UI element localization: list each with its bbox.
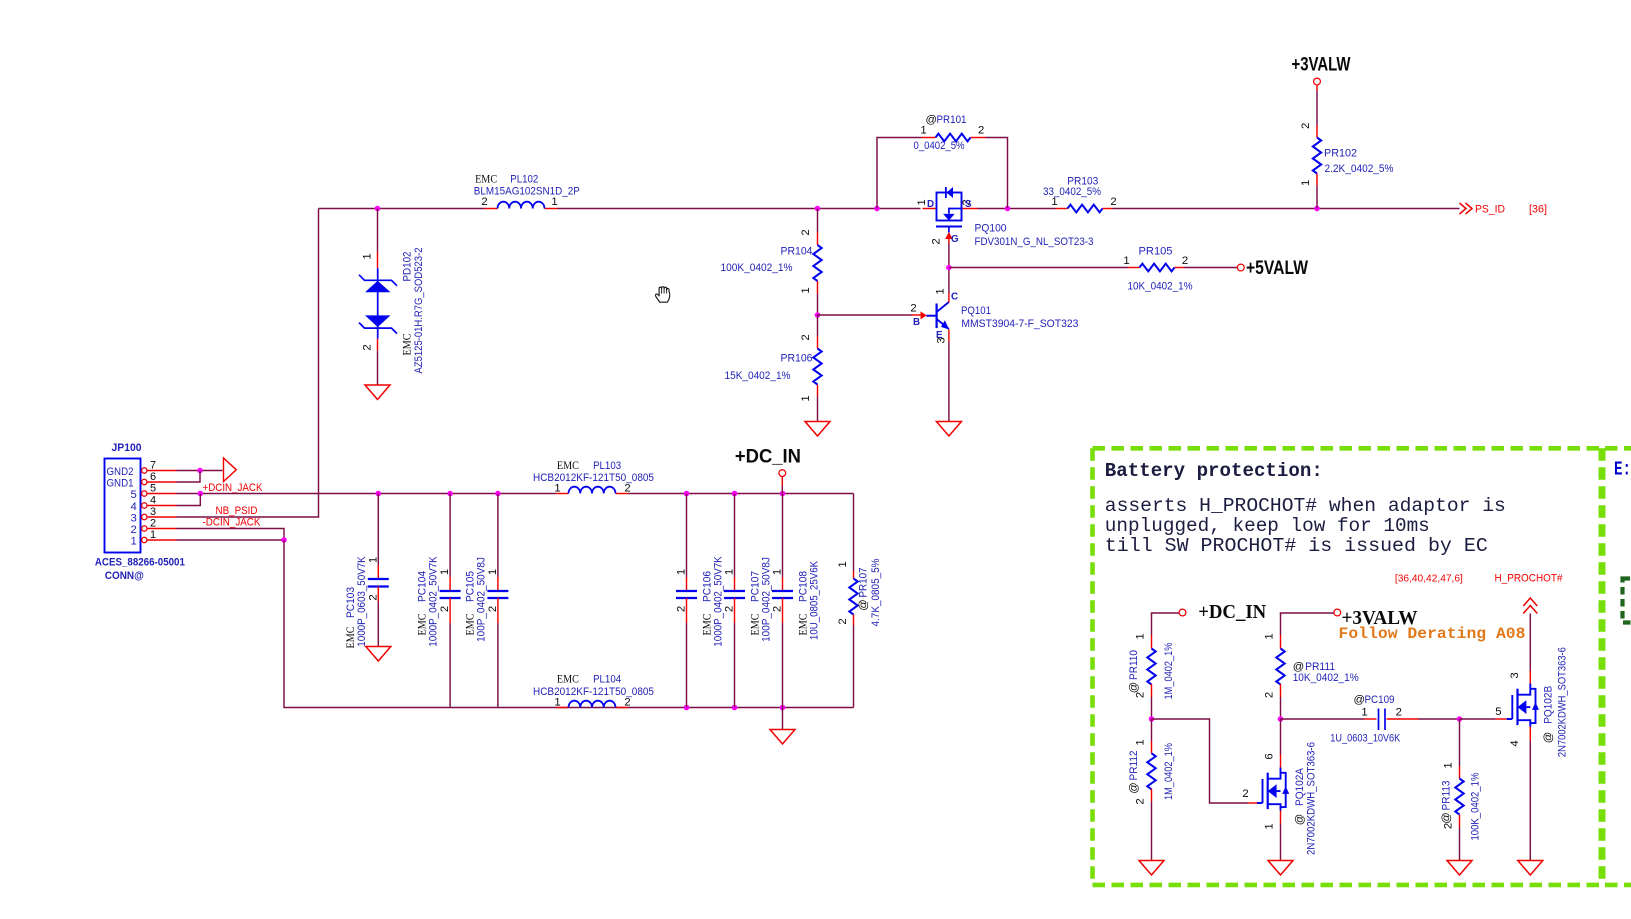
svg-text:1M_0402_1%: 1M_0402_1%: [1163, 743, 1175, 800]
svg-text:1: 1: [935, 288, 947, 294]
svg-text:1: 1: [1135, 739, 1147, 745]
svg-text:6: 6: [1264, 753, 1276, 759]
svg-text:EMC: EMC: [557, 674, 579, 686]
svg-text:2: 2: [1110, 196, 1116, 208]
svg-text:1: 1: [1051, 196, 1057, 208]
svg-text:@: @: [1128, 682, 1140, 693]
svg-text:1: 1: [439, 569, 451, 575]
svg-text:+3VALW: +3VALW: [1292, 54, 1351, 76]
svg-text:PR101: PR101: [937, 114, 967, 126]
capacitor PC107: [724, 494, 773, 708]
svg-text:2: 2: [724, 606, 736, 612]
svg-text:E:: E:: [1614, 459, 1631, 481]
svg-text:1: 1: [772, 569, 784, 575]
svg-text:2: 2: [800, 334, 812, 340]
svg-text:1: 1: [676, 569, 688, 575]
svg-text:3: 3: [150, 506, 156, 518]
wire PQ102B drain to H_PROCHOT#: [1509, 614, 1530, 684]
svg-text:+DCIN_JACK: +DCIN_JACK: [203, 482, 263, 494]
svg-text:2: 2: [837, 618, 849, 624]
svg-text:100P_0402_50V8J: 100P_0402_50V8J: [475, 557, 487, 642]
svg-text:3: 3: [936, 337, 948, 343]
ground below PD102: [365, 385, 390, 400]
wire NB_PSID vertical riser x=318: [177, 209, 319, 518]
svg-text:1: 1: [150, 529, 156, 541]
svg-text:PR113: PR113: [1441, 781, 1453, 811]
svg-text:[36,40,42,47,6]: [36,40,42,47,6]: [1395, 574, 1463, 585]
wire PR101 loop: [877, 138, 1008, 209]
resistor PR106: [725, 315, 822, 422]
svg-text:7: 7: [150, 459, 156, 471]
svg-text:2: 2: [800, 229, 812, 235]
svg-text:2: 2: [1242, 788, 1248, 800]
svg-text:1: 1: [1300, 180, 1312, 186]
svg-text:1: 1: [837, 561, 849, 567]
svg-text:2: 2: [131, 524, 137, 536]
svg-text:1: 1: [1443, 762, 1455, 768]
capacitor PC108: [772, 494, 821, 708]
svg-text:@: @: [1543, 732, 1555, 743]
svg-text:NB_PSID: NB_PSID: [216, 505, 258, 517]
annotation box (battery protection): [1093, 448, 1603, 885]
svg-text:2: 2: [910, 303, 916, 315]
resistor PR101: [914, 114, 986, 152]
svg-text:100K_0402_1%: 100K_0402_1%: [1470, 773, 1482, 841]
svg-text:2: 2: [1182, 255, 1188, 267]
svg-text:@: @: [926, 114, 937, 126]
annotation mini box (clipped): [1623, 579, 1631, 623]
svg-text:2: 2: [150, 517, 156, 529]
svg-text:3: 3: [1509, 672, 1521, 678]
transistor PQ102B (2N7002): [1507, 647, 1569, 757]
svg-text:unplugged, keep low for 10ms: unplugged, keep low for 10ms: [1105, 515, 1430, 537]
svg-text:10K_0402_1%: 10K_0402_1%: [1128, 281, 1193, 293]
svg-text:@: @: [858, 599, 870, 610]
net label -DCIN_JACK: [203, 517, 261, 529]
ground below PR112: [1139, 861, 1164, 876]
ground below PQ102B: [1518, 861, 1543, 876]
junction PR110/PR112/gate: [1149, 716, 1155, 722]
svg-text:-DCIN_JACK: -DCIN_JACK: [203, 517, 261, 529]
junction dots on main net: [375, 206, 1320, 212]
svg-text:5: 5: [131, 489, 137, 501]
svg-text:till SW PROCHOT# is issued by: till SW PROCHOT# is issued by EC: [1105, 535, 1488, 557]
note title E: (clipped): [1614, 459, 1631, 481]
svg-text:PC109: PC109: [1365, 694, 1395, 706]
wire PQ102A drain: [1264, 719, 1281, 768]
svg-text:PQ102B: PQ102B: [1543, 686, 1555, 724]
capacitor PC105: [464, 494, 508, 708]
resistor PR105: [1123, 246, 1192, 293]
inductor PL104: [533, 674, 654, 709]
transistor PQ101 (MMST3904): [927, 288, 1079, 343]
svg-text:1: 1: [131, 535, 137, 547]
resistor PR102: [1300, 91, 1394, 209]
ground below PQ102A: [1268, 861, 1293, 876]
net label NB_PSID: [216, 505, 258, 517]
svg-text:PL102: PL102: [510, 174, 538, 186]
svg-text:H_PROCHOT#: H_PROCHOT#: [1495, 573, 1564, 585]
svg-text:10U_0805_25V6K: 10U_0805_25V6K: [809, 561, 821, 640]
svg-text:2N7002KDWH_SOT363-6: 2N7002KDWH_SOT363-6: [1556, 647, 1568, 757]
wire PQ101 collector to node: [948, 268, 950, 294]
svg-text:2: 2: [367, 594, 379, 600]
wire bottom rail to ground: [782, 708, 784, 730]
svg-text:PS_ID: PS_ID: [1475, 204, 1505, 216]
svg-text:FDV301N_G_NL_SOT23-3: FDV301N_G_NL_SOT23-3: [975, 236, 1094, 248]
svg-text:2: 2: [676, 606, 688, 612]
svg-text:1: 1: [1123, 255, 1129, 267]
svg-text:10K_0402_1%: 10K_0402_1%: [1293, 672, 1359, 684]
svg-text:MMST3904-7-F_SOT323: MMST3904-7-F_SOT323: [961, 318, 1078, 330]
svg-text:D: D: [927, 199, 934, 210]
svg-text:PR102: PR102: [1324, 148, 1357, 160]
TVS diode PD102: [359, 209, 425, 386]
svg-text:PR110: PR110: [1128, 650, 1140, 680]
svg-text:JP100: JP100: [112, 442, 142, 454]
svg-text:2: 2: [1135, 798, 1147, 804]
ground below PQ101: [936, 422, 961, 437]
svg-text:HCB2012KF-121T50_0805: HCB2012KF-121T50_0805: [533, 686, 654, 698]
wire pin4 join: [177, 494, 201, 506]
junction node gate/collector/+5V: [946, 265, 952, 271]
ferrite bead PL102: [474, 174, 580, 209]
wire PR110 node to PQ102A gate: [1152, 719, 1249, 803]
resistor PR110: [1128, 614, 1175, 720]
note title battery protection: [1105, 460, 1323, 482]
svg-text:2: 2: [487, 606, 499, 612]
capacitor PC103: [345, 494, 389, 649]
wire PQ100 gate to node: [948, 244, 950, 268]
svg-text:1M_0402_1%: 1M_0402_1%: [1163, 643, 1175, 700]
capacitor PC104: [417, 494, 461, 708]
svg-text:PQ100: PQ100: [975, 223, 1007, 235]
resistor PR104: [721, 209, 822, 316]
svg-text:2: 2: [1300, 123, 1312, 129]
svg-text:1: 1: [554, 483, 560, 495]
svg-text:GND2: GND2: [107, 466, 134, 478]
svg-text:100K_0402_1%: 100K_0402_1%: [721, 262, 793, 274]
svg-text:6: 6: [150, 471, 156, 483]
svg-text:PD102: PD102: [402, 252, 414, 282]
svg-text:2N7002KDWH_SOT363-6: 2N7002KDWH_SOT363-6: [1306, 742, 1318, 855]
svg-text:+5VALW: +5VALW: [1246, 257, 1308, 279]
svg-text:1000P_0603_50V7K: 1000P_0603_50V7K: [356, 556, 368, 647]
svg-text:1: 1: [800, 287, 812, 293]
svg-text:PR104: PR104: [781, 246, 813, 258]
svg-text:PQ101: PQ101: [961, 305, 991, 317]
svg-text:@: @: [1354, 694, 1365, 706]
svg-text:15K_0402_1%: 15K_0402_1%: [725, 370, 791, 382]
ground below filter: [770, 730, 795, 745]
wire pin1 to rail: [177, 539, 285, 541]
svg-text:2.2K_0402_5%: 2.2K_0402_5%: [1325, 163, 1394, 175]
junction PR111/PC109/PQ102A: [1278, 716, 1284, 722]
resistor PR113: [1441, 719, 1482, 861]
resistor PR103: [1043, 176, 1117, 213]
connector JP100 footprint label: [95, 557, 185, 583]
svg-text:3: 3: [131, 512, 137, 524]
svg-text:PQ102A: PQ102A: [1294, 768, 1306, 806]
svg-text:G: G: [951, 234, 959, 245]
wire pin2 join: [177, 529, 285, 541]
svg-text:@: @: [1294, 814, 1306, 825]
svg-text:S: S: [965, 199, 972, 210]
wire ground-return rail: [284, 540, 854, 708]
svg-text:EMC: EMC: [402, 334, 414, 356]
svg-text:1: 1: [724, 569, 736, 575]
junction pin5/pin4: [198, 491, 204, 497]
svg-text:1: 1: [487, 569, 499, 575]
ground below PR113: [1447, 861, 1472, 876]
capacitor PC106: [676, 494, 725, 708]
connector JP100 body: [105, 442, 142, 553]
svg-text:PL104: PL104: [593, 674, 621, 686]
svg-text:1: 1: [367, 557, 379, 563]
wire PQ101 base: [818, 303, 927, 329]
svg-text:2: 2: [481, 196, 487, 208]
svg-text:@: @: [1441, 812, 1453, 823]
svg-text:PR105: PR105: [1139, 246, 1173, 258]
wire pin6 join: [177, 471, 201, 483]
svg-text:AZ5125-01H.R7G_SOD523-2: AZ5125-01H.R7G_SOD523-2: [413, 248, 425, 374]
wire node to PR105: [949, 267, 1128, 269]
wire +DCIN_JACK rail: [177, 493, 854, 495]
ground below PR106: [805, 422, 830, 437]
svg-text:PR112: PR112: [1128, 751, 1140, 781]
power +3VALW (battery box): [1281, 607, 1418, 629]
svg-text:GND1: GND1: [107, 477, 134, 489]
resistor PR111: [1264, 614, 1359, 720]
transistor PQ100 (FDV301N): [916, 187, 1094, 248]
svg-text:2: 2: [439, 606, 451, 612]
net label +DCIN_JACK: [203, 482, 263, 494]
svg-text:+DC_IN: +DC_IN: [1198, 602, 1266, 623]
transistor PQ102A (2N7002): [1249, 742, 1318, 855]
svg-text:PR106: PR106: [781, 353, 813, 365]
svg-text:C: C: [951, 291, 958, 302]
svg-text:HCB2012KF-121T50_0805: HCB2012KF-121T50_0805: [533, 472, 654, 484]
cursor hand icon: [656, 287, 670, 303]
svg-text:1: 1: [551, 196, 557, 208]
svg-text:4: 4: [1509, 740, 1521, 746]
junction dots top rail: [376, 491, 786, 497]
svg-text:4: 4: [131, 501, 137, 513]
svg-text:2: 2: [772, 606, 784, 612]
note follow derating: [1339, 625, 1526, 643]
wire PQ102B source to ground: [1509, 727, 1530, 861]
port H_PROCHOT# arrow: [1523, 598, 1537, 614]
svg-text:5: 5: [1495, 706, 1501, 718]
svg-text:1: 1: [554, 697, 560, 709]
port unnamed (pin7): [224, 458, 237, 482]
svg-text:PR107: PR107: [858, 568, 870, 598]
svg-text:@: @: [1128, 782, 1140, 793]
resistor PR112: [1128, 719, 1175, 861]
ground below PC103: [366, 647, 391, 662]
svg-text:0_0402_5%: 0_0402_5%: [914, 140, 965, 152]
svg-text:5: 5: [150, 482, 156, 494]
svg-text:1: 1: [800, 395, 812, 401]
svg-text:2: 2: [624, 697, 630, 709]
svg-text:2: 2: [931, 238, 943, 244]
svg-text:1: 1: [1135, 633, 1147, 639]
wire main net (PL102/PQ100/PR103 row, y=208): [319, 208, 1460, 210]
svg-text:1U_0603_10V6K: 1U_0603_10V6K: [1330, 733, 1400, 745]
svg-text:2: 2: [624, 483, 630, 495]
svg-text:CONN@: CONN@: [105, 570, 144, 582]
junction node PR104/PR106/base: [815, 312, 821, 318]
svg-text:BLM15AG102SN1D_2P: BLM15AG102SN1D_2P: [474, 186, 580, 198]
svg-text:+DC_IN: +DC_IN: [735, 446, 801, 468]
svg-text:ACES_88266-05001: ACES_88266-05001: [95, 557, 185, 569]
wire pin7 to port: [177, 470, 223, 472]
note body battery protection: [1105, 495, 1506, 557]
svg-text:Battery protection:: Battery protection:: [1105, 460, 1323, 482]
resistor PR107: [837, 494, 882, 708]
power +5VALW: [1237, 257, 1308, 279]
capacitor PC109: [1281, 694, 1460, 745]
wire PQ101 emitter to ground: [948, 342, 950, 422]
net label H_PROCHOT#: [1495, 573, 1564, 585]
svg-text:2: 2: [362, 344, 374, 350]
junction PC109/PR113/PQ102B: [1457, 716, 1463, 722]
inductor PL103: [533, 460, 654, 495]
svg-text:1: 1: [362, 253, 374, 259]
power +3VALW (top): [1292, 54, 1351, 91]
svg-text:1: 1: [1361, 707, 1367, 719]
port PS_ID: [1460, 203, 1548, 216]
junction pin1/pin2: [281, 537, 287, 543]
svg-text:1: 1: [1264, 823, 1276, 829]
svg-text:2: 2: [978, 125, 984, 137]
wire PQ102A source to ground: [1264, 811, 1281, 861]
svg-text:B: B: [913, 317, 920, 328]
wire PR105 to +5VALW: [1185, 267, 1238, 269]
svg-text:PL103: PL103: [593, 460, 621, 472]
junction dots bottom rail: [684, 705, 786, 711]
svg-text:[36]: [36]: [1529, 204, 1547, 216]
power +DC_IN (filter): [735, 446, 801, 494]
connector JP100 pins: [107, 459, 177, 547]
svg-text:2: 2: [1264, 692, 1276, 698]
annotation box (right, clipped): [1605, 448, 1631, 885]
wire PQ102B gate: [1460, 706, 1507, 719]
svg-text:4: 4: [150, 494, 156, 506]
svg-text:4.7K_0805_5%: 4.7K_0805_5%: [870, 559, 882, 627]
svg-text:EMC: EMC: [557, 460, 579, 472]
svg-text:1: 1: [1264, 633, 1276, 639]
svg-text:asserts H_PROCHOT# when adapto: asserts H_PROCHOT# when adaptor is: [1105, 495, 1506, 517]
svg-text:1: 1: [920, 125, 926, 137]
svg-text:Follow Derating A08: Follow Derating A08: [1339, 625, 1526, 643]
net ref list label: [1395, 574, 1463, 585]
power +DC_IN (battery box): [1152, 602, 1267, 623]
svg-text:1000P_0402_50V7K: 1000P_0402_50V7K: [428, 556, 440, 647]
svg-text:2: 2: [1396, 707, 1402, 719]
junction pin7/pin6: [197, 468, 203, 474]
svg-text:EMC: EMC: [475, 174, 497, 186]
